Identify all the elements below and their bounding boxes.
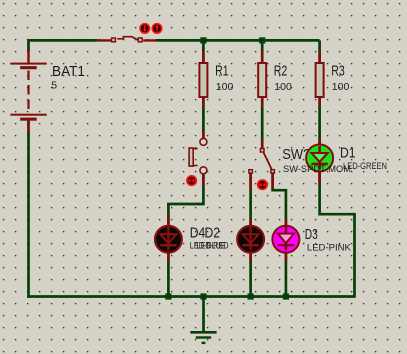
LED D1 (green, lit) (306, 140, 333, 184)
LED D3 (pink, lit) (272, 219, 299, 262)
svg-text:5: 5 (51, 80, 57, 92)
svg-text:D3: D3 (305, 226, 318, 243)
ground (190, 297, 216, 343)
junction node on top rail at R2 (259, 37, 265, 43)
push button (momentary, R1 branch) (189, 131, 207, 187)
svg-text:SW-SPDT-MOM: SW-SPDT-MOM (283, 164, 351, 175)
wire: SPDT right throw jog to D3 (273, 174, 286, 228)
wire: D3 cathode to bottom rail (285, 252, 288, 297)
LED D2 (red, off) (237, 220, 264, 263)
junction node on bottom rail at D3 (283, 293, 289, 299)
svg-text:R3: R3 (331, 63, 345, 80)
svg-text:100: 100 (216, 81, 234, 93)
junction node on bottom rail at D4 (165, 293, 171, 299)
battery BAT1 (10, 50, 46, 133)
switch actuator button (down arrow) (140, 24, 149, 33)
svg-text:R1: R1 (215, 63, 229, 80)
junction node on bottom rail at D2 (248, 293, 254, 299)
svg-text:100: 100 (332, 81, 350, 93)
junction node on bottom rail at ground (200, 293, 206, 299)
wire: battery column (left rail) down to bottom rail (27, 39, 30, 298)
svg-text:D2: D2 (205, 224, 221, 241)
svg-text:LED-PINK: LED-PINK (307, 242, 352, 253)
push button actuator (red circle) (187, 176, 196, 185)
resistor R3 (316, 51, 324, 107)
svg-text:100: 100 (274, 81, 292, 93)
SPDT actuator (red circle) (258, 180, 267, 189)
svg-text:LED-RED: LED-RED (197, 241, 229, 252)
junction node on top rail at R1 (200, 37, 206, 43)
svg-text:D4: D4 (190, 224, 206, 241)
switch SW? SPDT (249, 140, 275, 190)
wire: D1 cathode jog to bottom rail right end (320, 172, 355, 298)
wire: top rail from battery to R3 corner (29, 39, 320, 42)
wire: R3 column to D1 (318, 40, 321, 146)
wire: R2 column to SPDT common (261, 40, 264, 148)
svg-text:BAT1: BAT1 (52, 63, 85, 80)
wire: D4 cathode to bottom rail (167, 252, 170, 297)
wire: bottom ground rail (27, 295, 354, 298)
resistor R1 (199, 51, 207, 107)
resistor R2 (258, 51, 266, 107)
wire: D2 cathode to bottom rail (249, 252, 252, 297)
svg-text:D1: D1 (340, 144, 356, 161)
switch SPST (top, closed) (98, 37, 156, 42)
LED D4 (blue, off) (155, 215, 182, 262)
wire: push button to D4 jog (168, 175, 203, 228)
wire: SPDT left throw to D2 (249, 174, 252, 228)
switch actuator button (up arrow) (152, 24, 161, 33)
svg-text:R2: R2 (274, 63, 288, 80)
wire: R1 column from top rail to push button (202, 40, 205, 138)
